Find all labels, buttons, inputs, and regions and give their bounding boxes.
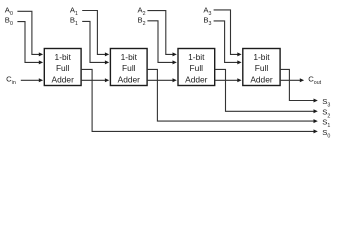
wire Cout from U4 [280, 79, 300, 81]
arrowhead S2 output [314, 109, 318, 113]
svg-text:1-bit: 1-bit [121, 52, 138, 62]
svg-text:Full: Full [56, 63, 70, 73]
wire Cin to adder U1 [21, 79, 40, 81]
arrowhead S1 output [314, 119, 318, 123]
arrowhead S3 output [314, 99, 318, 103]
svg-text:Adder: Adder [250, 75, 273, 85]
wire A0 to adder U1 [17, 11, 39, 54]
arrowhead carry C3 [237, 78, 241, 82]
wire B0 to adder U1 [17, 22, 39, 63]
wire B1 to adder U2 [82, 21, 106, 62]
svg-text:Adder: Adder [52, 75, 75, 85]
arrowhead A3 input [237, 52, 241, 56]
wire carry C3 from U3 to U4 [215, 79, 239, 81]
arrowhead B2 input [173, 60, 177, 64]
svg-text:1-bit: 1-bit [253, 52, 270, 62]
wire sum S3 from U4 to output [280, 69, 314, 100]
svg-text:S0: S0 [322, 128, 330, 140]
arrowhead B1 input [105, 60, 109, 64]
wire sum S1 from U2 to output [147, 69, 314, 121]
svg-text:Full: Full [122, 63, 136, 73]
arrowhead carry C2 [173, 78, 177, 82]
arrowhead Cin input [39, 78, 43, 82]
arrowhead S0 output [314, 129, 318, 133]
wire A3 to adder U4 [214, 10, 239, 55]
svg-text:Adder: Adder [185, 75, 208, 85]
full adder U3 box [178, 49, 215, 86]
arrowhead B3 input [237, 60, 241, 64]
svg-text:Adder: Adder [118, 75, 141, 85]
arrowhead A0 input [39, 52, 43, 56]
arrowhead carry C1 [105, 78, 109, 82]
svg-text:Full: Full [190, 63, 204, 73]
arrowhead A2 input [173, 52, 177, 56]
wire B2 to adder U3 [147, 21, 173, 63]
wire B3 to adder U4 [214, 21, 239, 63]
full adder U2 box [110, 49, 147, 86]
wire A2 to adder U3 [147, 11, 173, 55]
arrowhead Cout [300, 78, 304, 82]
wire sum S0 from U1 to output [81, 69, 314, 131]
svg-text:1-bit: 1-bit [188, 52, 205, 62]
svg-text:Cout: Cout [308, 75, 321, 86]
svg-text:1-bit: 1-bit [55, 52, 72, 62]
wire carry C1 from U1 to U2 [81, 79, 106, 81]
wire A1 to adder U2 [82, 11, 106, 55]
svg-text:Full: Full [255, 63, 269, 73]
full adder U4 box [243, 49, 280, 86]
svg-text:Cin: Cin [6, 75, 16, 86]
full adder U1 box [44, 49, 81, 86]
arrowhead B0 input [39, 60, 43, 64]
wire sum S2 from U3 to output [215, 69, 314, 111]
arrowhead A1 input [105, 52, 109, 56]
wire carry C2 from U2 to U3 [147, 79, 173, 81]
